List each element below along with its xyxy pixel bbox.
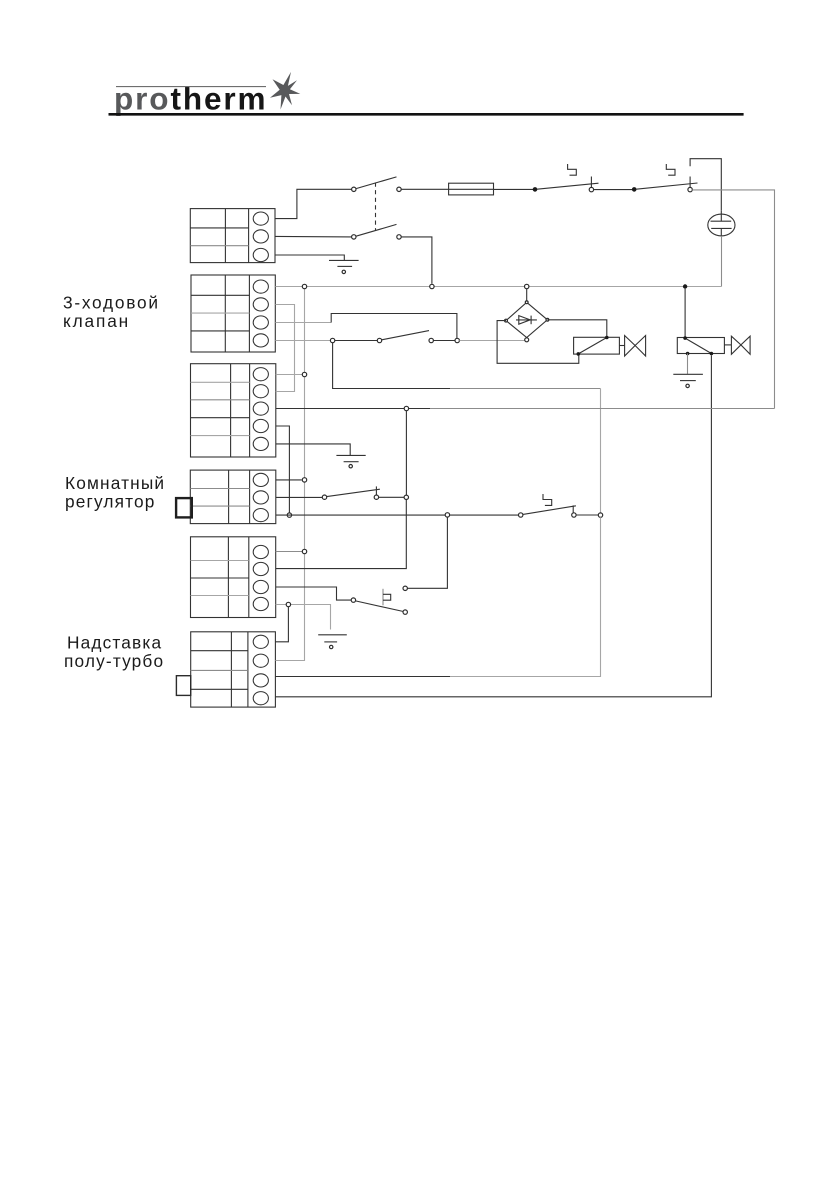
wire TB2-4 to pump switch (275, 340, 331, 342)
riser continues down to TB5-2 (276, 500, 407, 569)
wire F1 to thermal switch TS1 (494, 188, 536, 190)
wire igniter to N bus (721, 236, 723, 287)
wire TB3-3 across to right riser (276, 408, 430, 410)
thermal switch TS2 (632, 164, 698, 192)
terminal block TB1 (190, 209, 275, 263)
pump switch S3 (335, 331, 455, 343)
wire S1 to fuse F1 (401, 188, 448, 190)
logo thin overline (116, 86, 266, 88)
wire TB3-4 down to L bus (276, 426, 290, 513)
drop wire from S3 input down to x600 rail (333, 343, 450, 389)
wire TB2-3 jog over to pump switch output (275, 322, 331, 324)
wire TB4-1 stub (276, 479, 302, 481)
switch S2 pole 2 (352, 224, 402, 239)
junction N bus / S2 (430, 284, 434, 288)
relay RL1 coil box (574, 336, 620, 356)
junction L bus / TB3-4 (287, 513, 291, 517)
L bus wire from TB4-3 (276, 514, 519, 516)
svg-text:protherm: protherm (114, 81, 267, 117)
wire TB1-3 to ground (275, 255, 344, 260)
wire TB5-3 to flue thermal switch TS4 (276, 587, 352, 600)
thermal switch TS1 (533, 164, 599, 192)
wire TB5-4 to ground (276, 605, 331, 630)
gas valve V1 (619, 336, 645, 357)
junction TS3 output / x600 rail (598, 513, 602, 517)
diode bridge rectifier (505, 301, 549, 342)
N bus wire (275, 286, 721, 288)
wire TS1 to thermal switch TS2 (594, 189, 635, 191)
link wire down to TB6-1 (275, 607, 288, 642)
junction N bus / feeder (302, 284, 306, 288)
gas valve V2 (724, 336, 750, 354)
riser from TB3-3 junction down (405, 411, 407, 495)
x600 rail down to TB6-3 (450, 517, 601, 676)
junction TB2-4 / drop wire (330, 338, 334, 342)
ground symbol G1 (329, 260, 359, 273)
svg-text:Надставка: Надставка (67, 633, 162, 653)
junction riser / S4 output (404, 495, 408, 499)
wire RL2 output down to TB6-4 (275, 355, 711, 697)
wire rectifier minus loop to relay RL1 (497, 321, 579, 364)
connector lug on TB6 (176, 676, 190, 696)
junction L bus drop to flue stat (445, 513, 449, 517)
connector lug on TB4 (176, 498, 192, 517)
drop wire from L bus to flue stat upper contact (407, 517, 447, 588)
junction feeder / TB4-1 (302, 478, 306, 482)
ground symbol G2 (336, 455, 365, 468)
ground symbol G4 (318, 635, 347, 649)
svg-text:клапан: клапан (63, 311, 130, 331)
terminal block TB5 (191, 537, 276, 618)
junction feeder / TB3-1 (302, 372, 306, 376)
junction N bus / rectifier (525, 284, 529, 288)
svg-text:регулятор: регулятор (65, 491, 156, 511)
wire TB3-1 stub (276, 374, 303, 376)
junction S3 output / TB2-3 jog (455, 338, 459, 342)
wire TB2-2 to TB3-2 (275, 305, 294, 392)
wire S3 output to rectifier (459, 340, 524, 342)
wire TB5-1 stub (276, 551, 303, 553)
wire RL2 to ground (687, 354, 689, 374)
terminal block TB3 (191, 364, 276, 457)
fuse F1 (449, 183, 494, 195)
wire N bus to rectifier (526, 289, 528, 303)
room thermostat switch S4 (322, 486, 404, 499)
wire S2 down to N bus (401, 237, 432, 284)
relay RL2 coil box (677, 336, 724, 355)
junction N bus / relay RL2 (683, 284, 687, 288)
terminal block TB2 (191, 275, 275, 352)
thermal switch TS3 on L bus (519, 494, 599, 517)
svg-text:3-ходовой: 3-ходовой (63, 293, 160, 313)
logo star (270, 72, 300, 110)
junction TB3-3 wire / room stat riser (404, 406, 408, 410)
wire TB3-5 to ground (276, 444, 350, 455)
wire rectifier plus to relay RL1 (547, 320, 606, 338)
svg-text:полу-турбо: полу-турбо (64, 651, 164, 671)
feeder wire from N bus down to TB6-2 (275, 289, 304, 661)
igniter lamp symbol (708, 211, 735, 236)
wire TB1-1 to switch S1 (275, 189, 352, 218)
terminal block TB6 (191, 632, 276, 707)
wire TS2 up-over to igniter (690, 159, 721, 211)
junction feeder / TB5-1 (302, 549, 306, 553)
ground symbol G3 (673, 374, 703, 387)
junction TB5-4 / TB6-1 link (286, 602, 290, 606)
terminal block TB4 (190, 470, 275, 523)
svg-text:Комнатный: Комнатный (65, 473, 165, 493)
wire TS2 output to right riser (692, 190, 774, 409)
wire TB1-2 to switch S2 (275, 235, 352, 238)
gang dashed link of S1 (375, 183, 377, 231)
wire TB4-2 to room stat switch (276, 496, 323, 498)
header rule (109, 113, 744, 116)
switch S1 pole 1 (352, 177, 402, 192)
wire N bus to relay RL2 (684, 289, 686, 338)
thermal switch TS4 (351, 586, 407, 614)
